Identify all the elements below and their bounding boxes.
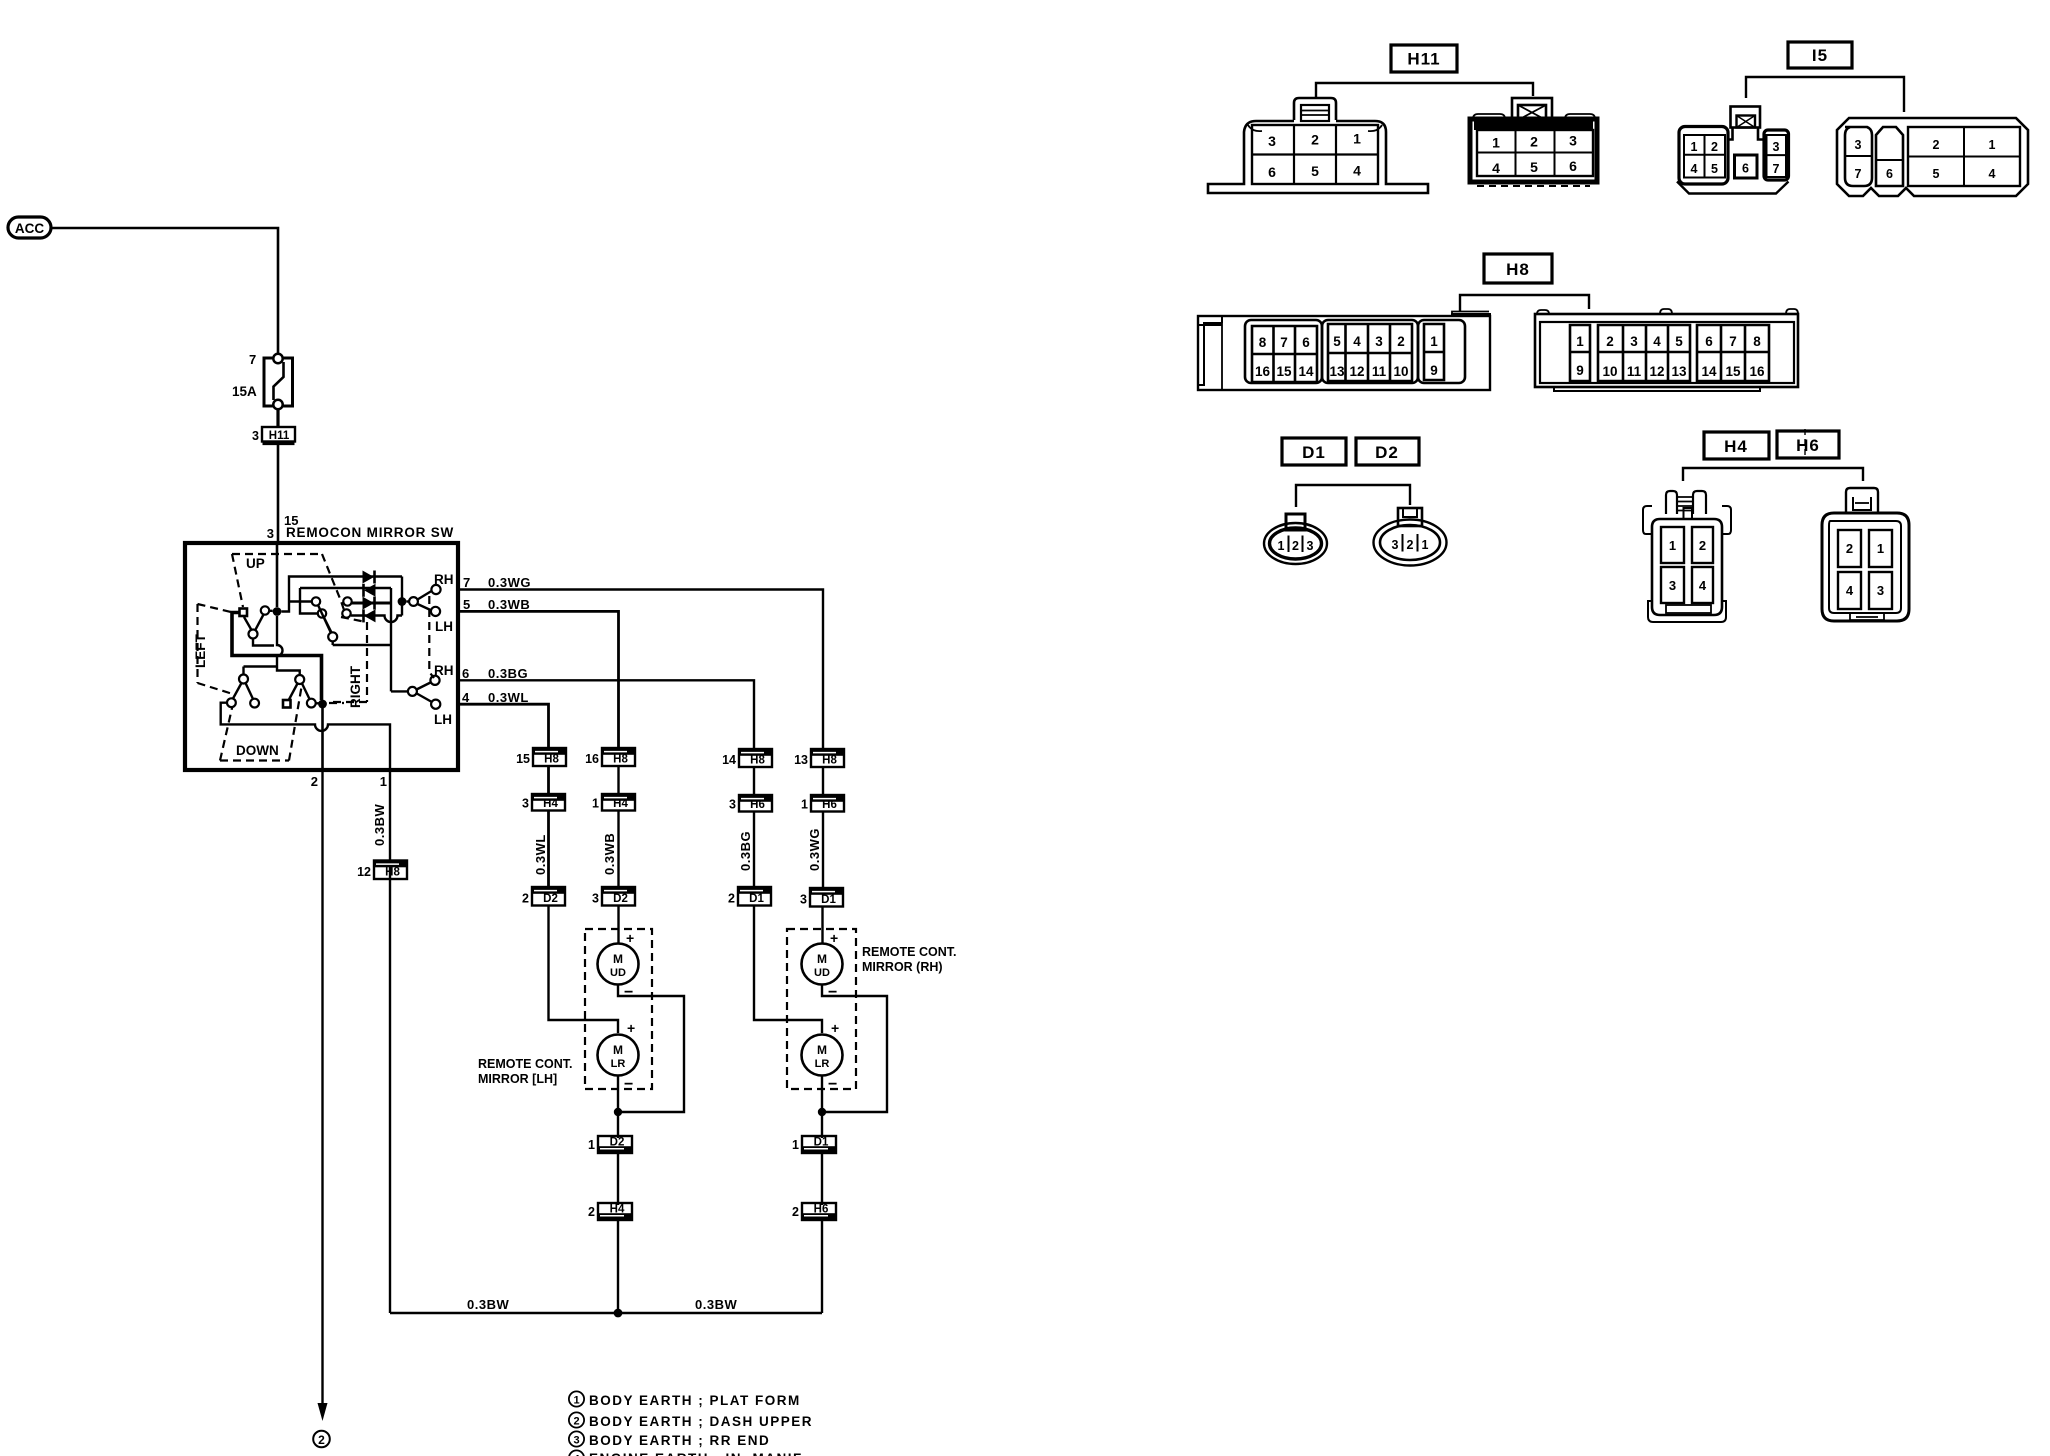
- svg-text:M: M: [817, 952, 827, 966]
- wire fuse to H11: [276, 409, 279, 427]
- svg-text:6: 6: [1302, 335, 1310, 350]
- svg-text:4: 4: [1353, 334, 1361, 349]
- svg-text:0.3BW: 0.3BW: [695, 1297, 737, 1312]
- svg-text:1: 1: [592, 797, 599, 811]
- svg-text:3: 3: [1773, 140, 1780, 154]
- lower-left contacts: [227, 698, 236, 707]
- svg-text:+: +: [830, 930, 838, 946]
- motor M-UD LH: [598, 930, 639, 1001]
- svg-text:LEFT: LEFT: [193, 634, 208, 668]
- svg-text:15: 15: [1276, 364, 1292, 379]
- wire 0.3WG vertical: [822, 812, 824, 889]
- node ACC: [8, 217, 51, 238]
- svg-text:15: 15: [516, 752, 530, 766]
- column2 connector 1 H4: [592, 794, 635, 811]
- column1 connector 3 H4: [522, 794, 565, 811]
- svg-text:3: 3: [592, 892, 599, 906]
- svg-text:BODY EARTH ; DASH UPPER: BODY EARTH ; DASH UPPER: [589, 1414, 813, 1429]
- svg-text:H8: H8: [613, 754, 628, 766]
- dashed DOWN frame: [220, 684, 302, 761]
- H11 label box: [1391, 45, 1457, 72]
- I5 female connector (right view): [1837, 118, 2028, 196]
- svg-text:−: −: [828, 984, 837, 1001]
- wire col3 to RH M-LR plus: [754, 906, 822, 1034]
- svg-text:11: 11: [1627, 364, 1642, 379]
- svg-text:ACC: ACC: [15, 221, 44, 236]
- svg-text:4: 4: [1699, 578, 1707, 593]
- svg-text:H8: H8: [822, 755, 837, 767]
- selector upper (pins 7/5): [398, 597, 407, 606]
- svg-text:UP: UP: [246, 556, 265, 571]
- svg-text:13: 13: [1329, 364, 1345, 379]
- svg-text:1: 1: [380, 774, 387, 789]
- wire M-UD LH minus loop: [618, 985, 684, 1113]
- svg-text:2: 2: [1530, 134, 1538, 150]
- svg-text:D1: D1: [814, 1137, 829, 1149]
- column3 connector 3 H6: [729, 795, 772, 812]
- svg-text:8: 8: [1753, 334, 1761, 349]
- svg-text:13: 13: [794, 753, 808, 767]
- svg-text:2: 2: [1933, 138, 1940, 152]
- svg-text:2: 2: [588, 1205, 595, 1219]
- svg-text:H4: H4: [610, 1204, 625, 1216]
- svg-text:5: 5: [1933, 167, 1940, 181]
- dash from dot to RIGHT frame: [329, 702, 344, 704]
- svg-text:2: 2: [1407, 538, 1414, 552]
- D1 D2 bracket wires: [1296, 485, 1410, 507]
- svg-text:−: −: [624, 1076, 633, 1093]
- svg-text:2: 2: [1606, 334, 1614, 349]
- dashed linkage RH/LH: [429, 596, 434, 678]
- svg-text:LH: LH: [435, 619, 453, 634]
- pivot arms lower-left: [233, 683, 310, 700]
- svg-text:6: 6: [1886, 167, 1893, 181]
- svg-text:10: 10: [1393, 364, 1408, 379]
- svg-text:6: 6: [1268, 164, 1276, 180]
- svg-text:12: 12: [1349, 364, 1364, 379]
- svg-text:2: 2: [522, 892, 529, 906]
- svg-text:3: 3: [1569, 133, 1577, 149]
- svg-text:1: 1: [801, 798, 808, 812]
- wire: [547, 766, 550, 794]
- D1 connector (oval): [1264, 514, 1327, 564]
- svg-text:1: 1: [1691, 140, 1698, 154]
- thick bus from contact a1: [232, 613, 322, 701]
- H11 male connector (left view): [1208, 98, 1428, 193]
- fuse 15A (pin 7): [232, 352, 293, 409]
- svg-text:M: M: [613, 952, 623, 966]
- svg-text:2: 2: [1846, 541, 1853, 556]
- diode D3: [363, 597, 375, 610]
- svg-text:3: 3: [1268, 133, 1276, 149]
- column3 connector 14 H8: [722, 749, 772, 767]
- svg-text:D1: D1: [1302, 443, 1326, 462]
- svg-text:REMOCON MIRROR SW: REMOCON MIRROR SW: [286, 525, 454, 540]
- svg-text:0.3BG: 0.3BG: [488, 666, 528, 681]
- svg-text:DOWN: DOWN: [236, 743, 279, 758]
- svg-text:3: 3: [252, 429, 259, 443]
- svg-text:6: 6: [1569, 158, 1577, 174]
- svg-text:5: 5: [1311, 163, 1319, 179]
- diode D2: [364, 584, 376, 597]
- svg-text:14: 14: [1701, 364, 1717, 379]
- svg-text:RH: RH: [434, 572, 454, 587]
- svg-text:H8: H8: [1506, 260, 1530, 279]
- wire pin7 0.3WG: [459, 590, 824, 750]
- svg-text:D2: D2: [610, 1137, 625, 1149]
- legend line 4 engine earth in manif: [569, 1450, 803, 1456]
- svg-text:1: 1: [1492, 135, 1500, 151]
- svg-text:3: 3: [1307, 539, 1314, 553]
- svg-text:BODY EARTH ; RR END: BODY EARTH ; RR END: [589, 1433, 770, 1448]
- lower-left pivots p3 p4: [239, 675, 248, 684]
- main feed wire inside switch: [276, 543, 279, 607]
- contacts on diode rails: [343, 597, 351, 605]
- svg-text:0.3WL: 0.3WL: [488, 690, 529, 705]
- svg-text:0.3BW: 0.3BW: [467, 1297, 509, 1312]
- svg-text:14: 14: [722, 753, 736, 767]
- connector 2 H6 inline: [792, 1203, 836, 1220]
- D1 label box: [1282, 438, 1346, 465]
- svg-text:M: M: [817, 1043, 827, 1057]
- motor M-UD RH: [802, 930, 843, 1001]
- H8 label box: [1484, 254, 1552, 283]
- wire c3L loop to pin1: [221, 703, 389, 731]
- wire pin2 to body earth arrow: [321, 770, 323, 1405]
- tee feed to lower pivots: [244, 667, 300, 676]
- svg-text:UD: UD: [610, 967, 626, 979]
- wire pin4 0.3WL: [459, 704, 549, 749]
- svg-text:6: 6: [1742, 162, 1749, 176]
- H6 connector (female 4pin): [1822, 488, 1909, 621]
- svg-text:3: 3: [267, 526, 274, 541]
- legend line 1 body earth plat form: [569, 1391, 801, 1408]
- svg-text:LH: LH: [434, 712, 452, 727]
- ground bus 0.3BW: [390, 1312, 822, 1315]
- svg-text:14: 14: [1298, 364, 1314, 379]
- svg-text:1: 1: [792, 1138, 799, 1152]
- svg-text:4: 4: [1846, 583, 1854, 598]
- svg-text:0.3WL: 0.3WL: [533, 834, 548, 875]
- svg-text:−: −: [624, 984, 633, 1001]
- svg-text:7: 7: [1729, 334, 1737, 349]
- svg-text:4: 4: [462, 690, 470, 705]
- svg-text:H8: H8: [750, 755, 765, 767]
- svg-text:7: 7: [1280, 335, 1288, 350]
- svg-text:2: 2: [792, 1205, 799, 1219]
- svg-text:1: 1: [1430, 334, 1438, 349]
- svg-text:LR: LR: [611, 1058, 626, 1070]
- svg-text:1: 1: [1422, 538, 1429, 552]
- wire H11 to switch: [277, 445, 280, 543]
- D2 connector (oval): [1374, 508, 1447, 566]
- svg-text:16: 16: [1749, 364, 1765, 379]
- svg-text:2: 2: [311, 774, 318, 789]
- svg-text:1: 1: [1989, 138, 1996, 152]
- D2 label box: [1356, 438, 1419, 465]
- svg-text:1: 1: [1353, 131, 1361, 147]
- svg-text:7: 7: [1773, 162, 1780, 176]
- svg-text:13: 13: [1671, 364, 1687, 379]
- column2 connector 3 D2: [592, 887, 635, 906]
- svg-text:ENGINE EARTH ; IN. MANIF: ENGINE EARTH ; IN. MANIF: [589, 1451, 803, 1456]
- svg-text:I5: I5: [1812, 46, 1828, 65]
- upper-right contacts b1 b2: [312, 597, 320, 605]
- svg-text:H4: H4: [613, 798, 628, 810]
- svg-text:H8: H8: [544, 754, 559, 766]
- legend line 3 body earth rr end: [569, 1431, 770, 1448]
- column4 connector 3 D1: [800, 888, 843, 907]
- svg-text:UD: UD: [814, 967, 830, 979]
- svg-text:3: 3: [1669, 578, 1676, 593]
- svg-text:12: 12: [357, 865, 371, 879]
- svg-text:0.3WB: 0.3WB: [602, 833, 617, 875]
- svg-text:MIRROR [LH]: MIRROR [LH]: [478, 1072, 557, 1086]
- svg-text:H6: H6: [814, 1204, 829, 1216]
- svg-text:2: 2: [573, 1416, 579, 1428]
- motor M-LR RH: [802, 1020, 843, 1093]
- dashed RIGHT frame: [330, 617, 367, 702]
- wire c4R to bus dot: [316, 702, 319, 704]
- svg-text:0.3BG: 0.3BG: [738, 831, 753, 871]
- svg-text:3: 3: [1855, 138, 1862, 152]
- H8 connector (left view): [1198, 312, 1490, 391]
- svg-text:H8: H8: [385, 867, 400, 879]
- svg-text:D2: D2: [543, 893, 558, 905]
- diode D1 up-rail: [363, 571, 375, 584]
- svg-text:1: 1: [1278, 539, 1285, 553]
- switch box outline REMOCON MIRROR SW: [185, 543, 458, 770]
- dashed UP frame: [232, 554, 345, 613]
- svg-text:0.3WB: 0.3WB: [488, 597, 530, 612]
- wire pin1 down: [389, 770, 391, 1313]
- pivot p1 and arms: [249, 630, 258, 639]
- I5 bracket wires: [1746, 77, 1904, 112]
- connector 1 D1 inline: [792, 1136, 836, 1153]
- svg-text:5: 5: [1675, 334, 1683, 349]
- RH mirror dashed enclosure: [787, 929, 856, 1089]
- svg-text:2: 2: [1292, 539, 1299, 553]
- svg-text:15A: 15A: [232, 384, 257, 399]
- svg-text:4: 4: [1653, 334, 1661, 349]
- svg-text:RIGHT: RIGHT: [348, 665, 363, 708]
- dashed LEFT frame: [198, 604, 237, 695]
- connector 12 H8 inline: [357, 861, 407, 880]
- svg-text:BODY EARTH ; PLAT FORM: BODY EARTH ; PLAT FORM: [589, 1393, 801, 1408]
- svg-text:3: 3: [1392, 538, 1399, 552]
- svg-text:H6: H6: [750, 799, 765, 811]
- svg-text:1: 1: [1576, 334, 1584, 349]
- svg-text:1: 1: [588, 1138, 595, 1152]
- svg-text:4: 4: [1353, 163, 1361, 179]
- column4 connector 13 H8: [794, 749, 844, 767]
- I5 label box: [1788, 42, 1852, 68]
- svg-text:15: 15: [1725, 364, 1741, 379]
- connector 1 D2 inline: [588, 1136, 632, 1153]
- svg-text:3: 3: [1375, 334, 1383, 349]
- svg-text:+: +: [831, 1020, 839, 1036]
- wire 0.3BG vertical: [753, 812, 755, 888]
- svg-text:D2: D2: [1375, 443, 1399, 462]
- I5 male connector (left view): [1677, 107, 1789, 194]
- svg-text:1: 1: [1669, 538, 1676, 553]
- svg-text:16: 16: [1255, 364, 1271, 379]
- svg-text:2: 2: [318, 1433, 325, 1447]
- diode block rails: [282, 577, 403, 692]
- svg-text:1: 1: [1877, 541, 1884, 556]
- pin 2 wire inside box: [321, 708, 324, 770]
- svg-text:6: 6: [462, 666, 469, 681]
- wire 0.3WL vertical: [547, 811, 550, 888]
- svg-text:5: 5: [1333, 334, 1341, 349]
- motor M-LR LH: [598, 1020, 639, 1093]
- svg-text:0.3WG: 0.3WG: [488, 575, 531, 590]
- svg-text:8: 8: [1259, 335, 1267, 350]
- pivot pb and arms: [328, 632, 337, 641]
- svg-text:12: 12: [1649, 364, 1664, 379]
- svg-text:2: 2: [1711, 140, 1718, 154]
- connector H11 pin 3 (inline): [252, 427, 295, 444]
- svg-text:D1: D1: [749, 893, 764, 905]
- ground symbol 2 (body earth dash upper): [313, 1431, 330, 1448]
- svg-text:REMOTE CONT.: REMOTE CONT.: [478, 1057, 572, 1071]
- svg-text:4: 4: [1691, 162, 1698, 176]
- svg-text:H4: H4: [543, 798, 558, 810]
- svg-text:5: 5: [463, 597, 470, 612]
- svg-text:D2: D2: [613, 893, 628, 905]
- switch contact a2: [261, 606, 269, 614]
- svg-text:16: 16: [585, 752, 599, 766]
- svg-text:H4: H4: [1724, 437, 1748, 456]
- wire M-LR LH minus: [617, 1076, 619, 1139]
- svg-text:2: 2: [1699, 538, 1706, 553]
- H8 connector (right view): [1535, 309, 1798, 391]
- column1 connector 2 D2: [522, 887, 565, 906]
- H4 label box: [1704, 432, 1769, 459]
- wire ACC to fuse: [51, 228, 278, 356]
- svg-text:3: 3: [800, 893, 807, 907]
- svg-text:2: 2: [728, 892, 735, 906]
- svg-text:9: 9: [1576, 363, 1584, 378]
- column3 connector 2 D1: [728, 887, 771, 906]
- svg-text:1: 1: [573, 1395, 579, 1407]
- svg-text:5: 5: [1530, 159, 1538, 175]
- wire col1 to M-LR plus: [549, 906, 619, 1034]
- wire 0.3WB vertical: [617, 811, 619, 888]
- svg-text:H11: H11: [269, 430, 290, 442]
- LH mirror dashed enclosure: [585, 929, 652, 1089]
- svg-text:9: 9: [1430, 363, 1438, 378]
- H8 bracket wires: [1460, 295, 1589, 312]
- svg-text:3: 3: [1877, 583, 1884, 598]
- column2 connector 16 H8: [585, 748, 635, 766]
- wire M-UD RH minus loop: [822, 985, 887, 1113]
- svg-text:3: 3: [573, 1435, 579, 1447]
- svg-text:H6: H6: [1796, 436, 1820, 455]
- svg-text:10: 10: [1602, 364, 1617, 379]
- wire pin6 0.3BG: [459, 680, 755, 749]
- svg-text:M: M: [613, 1043, 623, 1057]
- svg-text:H11: H11: [1407, 50, 1440, 69]
- H11 bracket wires: [1316, 83, 1533, 97]
- svg-text:4: 4: [1492, 160, 1500, 176]
- svg-text:D1: D1: [821, 894, 836, 906]
- crease dashed mark: [1804, 429, 1806, 459]
- svg-text:7: 7: [463, 575, 470, 590]
- switch contact a1 (up-left): [240, 609, 248, 617]
- column4 connector 1 H6: [801, 795, 844, 812]
- svg-text:3: 3: [1630, 334, 1638, 349]
- H11 female connector (right view): [1470, 98, 1597, 186]
- svg-text:2: 2: [1311, 132, 1319, 148]
- wire col4 to RH M-UD plus: [821, 907, 823, 944]
- svg-text:REMOTE CONT.: REMOTE CONT.: [862, 945, 956, 959]
- svg-text:+: +: [627, 1020, 635, 1036]
- svg-text:4: 4: [1989, 167, 1996, 181]
- wire a2 to feed dot: [270, 610, 273, 612]
- connector 2 H4 inline: [588, 1203, 632, 1220]
- svg-text:5: 5: [1711, 162, 1718, 176]
- svg-text:+: +: [626, 930, 634, 946]
- svg-text:2: 2: [1397, 334, 1405, 349]
- svg-text:3: 3: [729, 798, 736, 812]
- svg-text:H6: H6: [822, 799, 837, 811]
- diode D4: [364, 609, 376, 622]
- svg-text:RH: RH: [434, 663, 454, 678]
- H6 label box: [1777, 431, 1839, 458]
- svg-text:6: 6: [1705, 334, 1713, 349]
- svg-text:3: 3: [522, 797, 529, 811]
- wire pin5 0.3WB: [459, 611, 619, 749]
- svg-text:11: 11: [1372, 364, 1387, 379]
- wire col2 to M-UD plus: [617, 906, 619, 944]
- legend line 2 body earth dash upper: [569, 1412, 813, 1429]
- svg-text:7: 7: [1855, 167, 1862, 181]
- svg-text:7: 7: [249, 352, 256, 367]
- svg-text:LR: LR: [815, 1058, 830, 1070]
- svg-text:0.3WG: 0.3WG: [807, 828, 822, 871]
- column1 connector 15 H8: [516, 748, 566, 766]
- H4 connector (male 4pin): [1643, 491, 1731, 622]
- svg-text:MIRROR (RH): MIRROR (RH): [862, 960, 943, 974]
- H4 H6 bracket wires: [1683, 468, 1863, 481]
- selector lower (pins 6/4): [391, 690, 408, 692]
- svg-text:0.3BW: 0.3BW: [372, 804, 387, 846]
- svg-text:−: −: [828, 1076, 837, 1093]
